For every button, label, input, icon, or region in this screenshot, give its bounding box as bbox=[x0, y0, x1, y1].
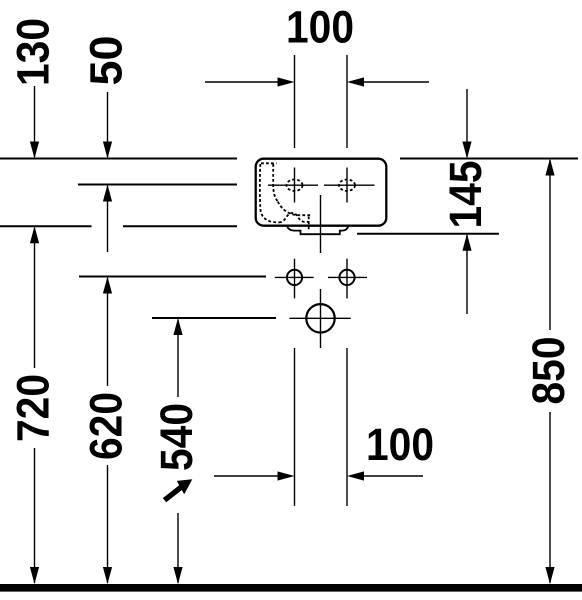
basin drain tab bbox=[287, 226, 349, 234]
dim 720 line lower segment bbox=[34, 448, 36, 583]
arrowhead top100 right-pointing bbox=[278, 77, 295, 86]
svg-text:540: 540 bbox=[151, 403, 202, 471]
arrowhead 720 down bbox=[30, 567, 39, 584]
centerline vertical through drain circle bbox=[320, 289, 322, 348]
floor bar bbox=[0, 584, 582, 592]
hidden line: inner rim outer left wall bbox=[260, 164, 279, 222]
note arrow (thick NE arrow near 540) bbox=[163, 479, 193, 502]
hidden line: inner slope to drain upper bbox=[278, 202, 312, 216]
basin body outline bbox=[256, 159, 387, 226]
arrowhead 145 down bbox=[462, 142, 471, 159]
hidden line: drain vertical to tab bbox=[308, 217, 310, 230]
hidden line: inner rim top connector bbox=[261, 162, 277, 164]
dimension line bottom 100 right part bbox=[360, 475, 423, 477]
hidden line: inner rim inner left wall bbox=[273, 164, 278, 202]
tap hole left (dashed ellipse) bbox=[287, 180, 303, 191]
crosshair tap hole right bbox=[324, 168, 375, 203]
wire: reference line 50mm below rim bbox=[78, 184, 237, 186]
wire: wall/top reference line L1 right bbox=[400, 158, 578, 160]
dim 620 line lower segment bbox=[107, 465, 109, 583]
svg-text:50: 50 bbox=[81, 35, 132, 85]
crosshair tap hole left bbox=[268, 168, 318, 203]
dim 850 line lower segment bbox=[549, 412, 551, 583]
arrowhead bottom100 left-pointing bbox=[347, 471, 364, 480]
extension line top 100 right bbox=[346, 55, 348, 148]
arrowhead 850 down bbox=[545, 567, 554, 584]
extension line top 100 left bbox=[294, 55, 296, 148]
drain outlet circle bbox=[306, 304, 334, 332]
dimension line top 100 right part bbox=[360, 81, 429, 83]
arrowhead 620 up bbox=[103, 277, 112, 294]
svg-text:100: 100 bbox=[286, 2, 354, 53]
extension line bottom 100 left bbox=[294, 348, 296, 506]
dim 50 top stem bbox=[107, 92, 109, 157]
fixing hole left bbox=[287, 270, 302, 285]
dim 145 top stem bbox=[466, 89, 468, 157]
arrowhead top100 left-pointing bbox=[347, 77, 364, 86]
wire: reference line 130mm (right part) bbox=[123, 225, 237, 227]
crosshair fixing hole right bbox=[328, 259, 367, 299]
arrowhead bottom100 right-pointing bbox=[278, 471, 295, 480]
arrowhead 145 up bbox=[462, 234, 471, 251]
crosshair drain circle horizontal bbox=[289, 317, 350, 319]
arrowhead 50 up bbox=[103, 185, 112, 202]
extension line bottom 100 right bbox=[346, 348, 348, 506]
dim 620 line upper segment bbox=[107, 278, 109, 386]
centerline vertical upper bbox=[320, 195, 322, 253]
dim 130 top stem bbox=[34, 86, 36, 157]
arrowhead 130 down bbox=[30, 142, 39, 159]
dim 720 line upper segment bbox=[34, 228, 36, 368]
wire: reference line at fixing holes level bbox=[79, 276, 266, 278]
svg-text:145: 145 bbox=[440, 161, 491, 229]
svg-text:720: 720 bbox=[8, 374, 59, 442]
dim 50 bottom stem bbox=[107, 186, 109, 252]
svg-text:620: 620 bbox=[81, 392, 132, 460]
dim 540 line upper segment bbox=[177, 320, 179, 398]
svg-text:130: 130 bbox=[8, 18, 59, 86]
hidden line: drain mound lower bbox=[279, 213, 312, 222]
arrowhead 540 down bbox=[173, 567, 182, 584]
wire: reference line at drain level bbox=[152, 317, 276, 319]
arrowhead 620 down bbox=[103, 567, 112, 584]
dim 145 bottom stem bbox=[466, 235, 468, 314]
dimension line top 100 left part bbox=[205, 81, 282, 83]
wire: wall/top reference line L1 left bbox=[0, 158, 237, 160]
dim 540 line lower segment bbox=[177, 513, 179, 583]
dim 850 line upper segment bbox=[549, 160, 551, 330]
crosshair fixing hole left bbox=[275, 259, 314, 299]
wire: reference line 145 bottom bbox=[357, 233, 499, 235]
wire: reference line 130mm (left part) bbox=[0, 225, 92, 227]
fixing hole right bbox=[339, 270, 354, 285]
arrowhead 540 up bbox=[173, 318, 182, 335]
svg-text:850: 850 bbox=[523, 337, 574, 405]
svg-text:100: 100 bbox=[366, 419, 434, 470]
tap hole right (dashed ellipse) bbox=[339, 180, 355, 191]
arrowhead 50 down bbox=[103, 142, 112, 159]
dimension line bottom 100 left part bbox=[214, 475, 282, 477]
arrowhead 850 up bbox=[545, 159, 554, 176]
arrowhead 720 up bbox=[30, 226, 39, 243]
